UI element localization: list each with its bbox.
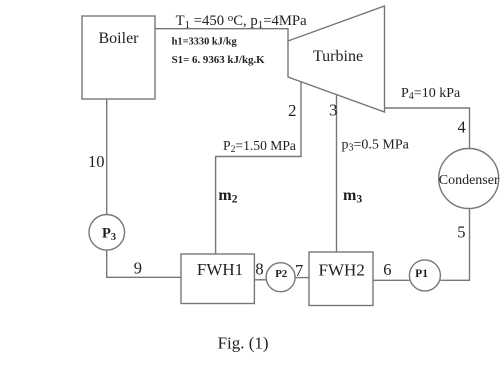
svg-text:10: 10 [88, 152, 105, 171]
FWH1 box [181, 254, 254, 304]
svg-text:Condenser: Condenser [439, 173, 499, 188]
svg-text:6: 6 [383, 260, 391, 279]
svg-text:P2=1.50 MPa: P2=1.50 MPa [223, 138, 296, 155]
wire 4 turbine exhaust to condenser [385, 108, 470, 149]
wire 7 FWH2 to pump P2 [295, 277, 309, 279]
wire 10 pump P3 to boiler [106, 99, 108, 215]
svg-text:7: 7 [295, 261, 303, 280]
svg-text:5: 5 [457, 223, 465, 242]
svg-text:P2: P2 [275, 268, 287, 280]
svg-text:3: 3 [329, 101, 338, 120]
wire 3 from turbine to FWH2 [336, 94, 338, 252]
svg-text:9: 9 [134, 258, 142, 277]
svg-text:Turbine: Turbine [313, 48, 363, 65]
svg-text:T1 =450 oC, p1=4MPa: T1 =450 oC, p1=4MPa [176, 12, 307, 31]
svg-text:FWH2: FWH2 [319, 261, 365, 280]
boiler box [82, 16, 155, 99]
svg-text:h1=3330 kJ/kg: h1=3330 kJ/kg [172, 37, 238, 48]
svg-text:2: 2 [288, 101, 297, 120]
pump P3 [89, 215, 125, 251]
condenser [439, 149, 499, 209]
svg-text:m2: m2 [218, 187, 237, 206]
svg-text:P1: P1 [415, 267, 428, 280]
FWH2 box [309, 252, 373, 306]
wire boiler to turbine (state 1) [155, 29, 288, 41]
svg-text:P4=10 kPa: P4=10 kPa [401, 86, 461, 102]
svg-text:4: 4 [458, 118, 466, 137]
svg-text:Fig. (1): Fig. (1) [218, 334, 269, 353]
wire 8 pump P2 to FWH1 [254, 279, 266, 281]
svg-text:8: 8 [255, 259, 263, 278]
pump P2 [266, 263, 295, 292]
svg-text:m3: m3 [343, 187, 362, 206]
svg-text:FWH1: FWH1 [197, 260, 243, 279]
svg-text:S1= 6. 9363 kJ/kg.K: S1= 6. 9363 kJ/kg.K [172, 54, 266, 66]
svg-text:P3: P3 [102, 226, 116, 243]
wire 9 FWH1 to pump P3 [107, 250, 181, 277]
svg-text:p3=0.5 MPa: p3=0.5 MPa [342, 138, 410, 154]
wire 5 condenser to pump P1 [440, 209, 469, 281]
turbine body [288, 6, 385, 112]
wire 2 from turbine to FWH1 [216, 81, 301, 254]
wire 6 pump P1 to FWH2 [373, 279, 409, 281]
pump P1 [409, 260, 440, 291]
svg-text:Boiler: Boiler [99, 30, 140, 47]
